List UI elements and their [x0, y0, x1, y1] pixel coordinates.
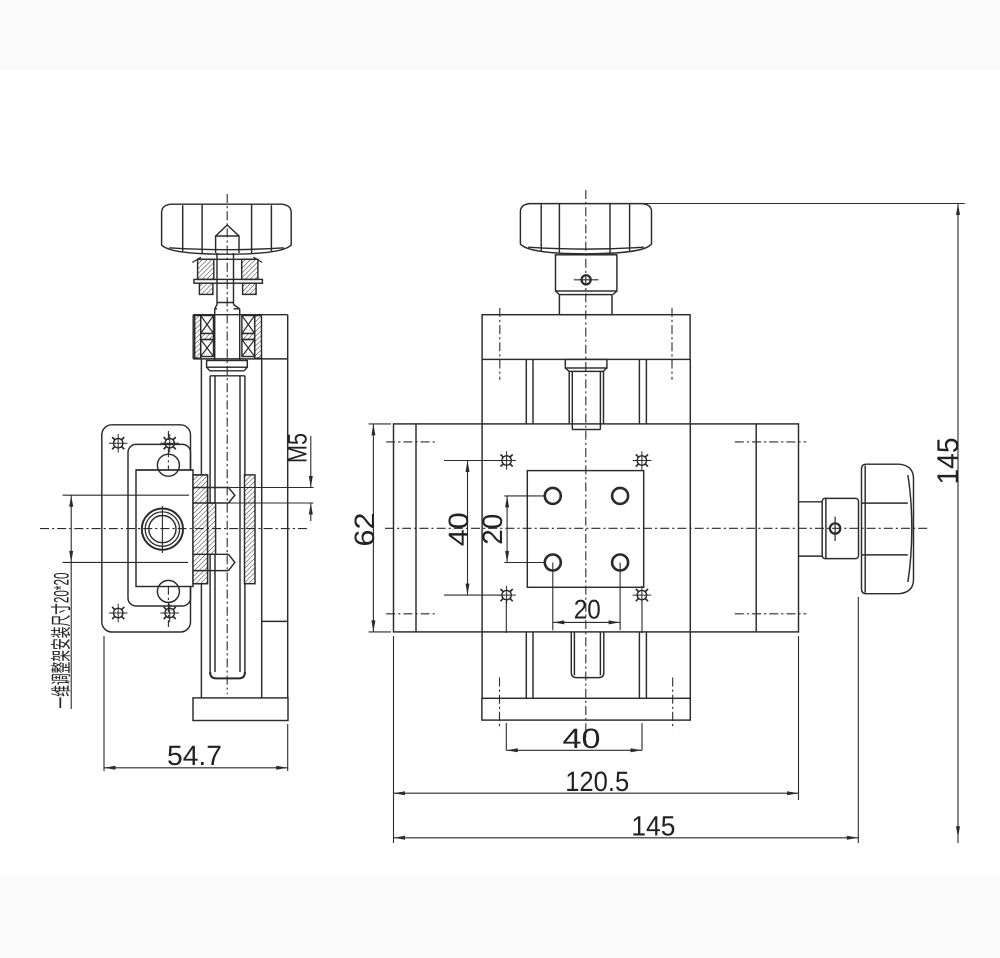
svg-text:一维调整架安装尺寸20*20: 一维调整架安装尺寸20*20	[51, 573, 74, 709]
side shaft stub	[799, 502, 822, 556]
knob centre boss	[216, 225, 239, 253]
plate hole bottom-left	[109, 604, 128, 623]
tower bottom flange	[482, 698, 690, 720]
platform table outline	[527, 471, 643, 588]
hidden screw mark bottom-left	[386, 613, 437, 615]
tower left side	[481, 359, 483, 698]
hatched strip (fixed rail section)	[245, 475, 256, 584]
corner hole top-right	[633, 451, 652, 470]
right bearing (cross section)	[242, 316, 262, 359]
flange screw axis right	[671, 308, 673, 380]
lower locating pin M5	[193, 554, 235, 570]
main body block	[394, 424, 799, 632]
hidden screw mark top-right	[735, 441, 806, 443]
left bearing (cross section)	[195, 316, 214, 359]
svg-text:62: 62	[349, 513, 380, 547]
shaft collar	[207, 361, 248, 371]
main horizontal centerline (left view)	[40, 528, 310, 530]
hand knob (right view, top)	[520, 204, 651, 254]
hidden screw mark bottom-right	[735, 613, 806, 615]
dimension note 20*20 (chinese)	[51, 495, 190, 709]
knob skirt edge right	[254, 257, 263, 262]
upper locating pin M5	[193, 488, 235, 504]
plate hole bottom-right	[160, 604, 179, 623]
locking nut / bushing (section)	[194, 259, 262, 294]
dimension M5	[229, 433, 314, 521]
right view horizontal centerline	[385, 527, 928, 529]
tower columns lower	[526, 632, 646, 698]
mounting plate centerline	[167, 431, 169, 627]
svg-text:20: 20	[574, 595, 601, 625]
vertical wall right edge	[287, 315, 289, 698]
right view vertical centerline	[585, 190, 587, 744]
side hand knob	[862, 464, 914, 594]
mounting plate inner contour	[128, 444, 191, 606]
flange screw axis lower-left	[499, 678, 501, 730]
faint gray band top	[0, 0, 1000, 70]
base foot plate (left view)	[193, 698, 288, 721]
hand knob (left view, top)	[162, 204, 292, 254]
plate hole top-left	[109, 434, 128, 453]
vertical leadscrew (right view)	[565, 359, 607, 429]
platform hole bottom-left	[545, 555, 561, 571]
bearing housing block	[193, 315, 288, 359]
corner hole bottom-right	[633, 586, 652, 605]
platform hole bottom-right	[612, 555, 628, 571]
stage wall section (hatched)	[193, 475, 216, 584]
mounting plate outline	[102, 425, 191, 632]
column body left edge	[200, 359, 202, 698]
dimension 54.7	[104, 636, 288, 771]
centre bore circles	[142, 506, 183, 553]
dimension 120.5	[394, 636, 799, 843]
left view vertical centerline	[226, 194, 228, 694]
dimension 145 bottom	[394, 597, 859, 843]
plate hole top-right	[160, 434, 179, 453]
svg-text:40: 40	[443, 512, 474, 546]
svg-text:120.5: 120.5	[565, 766, 629, 797]
flange screw axis lower-right	[672, 678, 674, 730]
tower right side	[689, 359, 691, 698]
leadscrew lower end	[571, 632, 604, 678]
tower columns upper	[526, 359, 646, 424]
dimension 62	[349, 424, 391, 632]
svg-text:M5: M5	[283, 433, 313, 463]
set screw circle (top)	[574, 275, 599, 284]
tower top flange	[482, 315, 690, 360]
corner hole top-left	[497, 451, 516, 470]
dimension 20 horizontal	[553, 563, 620, 631]
svg-text:54.7: 54.7	[167, 740, 222, 771]
svg-text:145: 145	[631, 811, 675, 842]
faint gray band bottom	[0, 875, 1000, 958]
carriage block top edge redraw	[136, 469, 193, 471]
knob hub / shaft adapter	[556, 255, 617, 315]
leadscrew (threaded column)	[210, 376, 245, 679]
body inner line left	[415, 424, 417, 632]
knob skirt edge left	[192, 257, 201, 262]
wall bottom edge	[262, 620, 288, 622]
body inner line right	[755, 424, 757, 632]
side knob hub	[822, 498, 858, 558]
carriage top boss circle	[157, 454, 179, 476]
carriage bottom boss circle	[157, 580, 179, 602]
dimension 40 vertical	[443, 461, 501, 596]
hidden screw mark top-left	[386, 441, 437, 443]
corner hole bottom-left	[497, 586, 516, 605]
dimension 40 bottom	[506, 601, 642, 754]
svg-text:40: 40	[563, 723, 601, 754]
adjustment screw shaft	[215, 253, 240, 361]
column body right edge	[261, 359, 263, 698]
dimension 145 right	[628, 204, 965, 844]
set screw circle (side)	[830, 517, 840, 541]
svg-text:20: 20	[477, 514, 508, 545]
platform hole top-right	[612, 488, 628, 504]
dimension 20 vertical	[477, 496, 546, 563]
platform hole top-left	[545, 488, 561, 504]
carriage block	[136, 470, 193, 587]
flange screw axis left	[499, 308, 501, 380]
svg-text:145: 145	[932, 438, 965, 485]
